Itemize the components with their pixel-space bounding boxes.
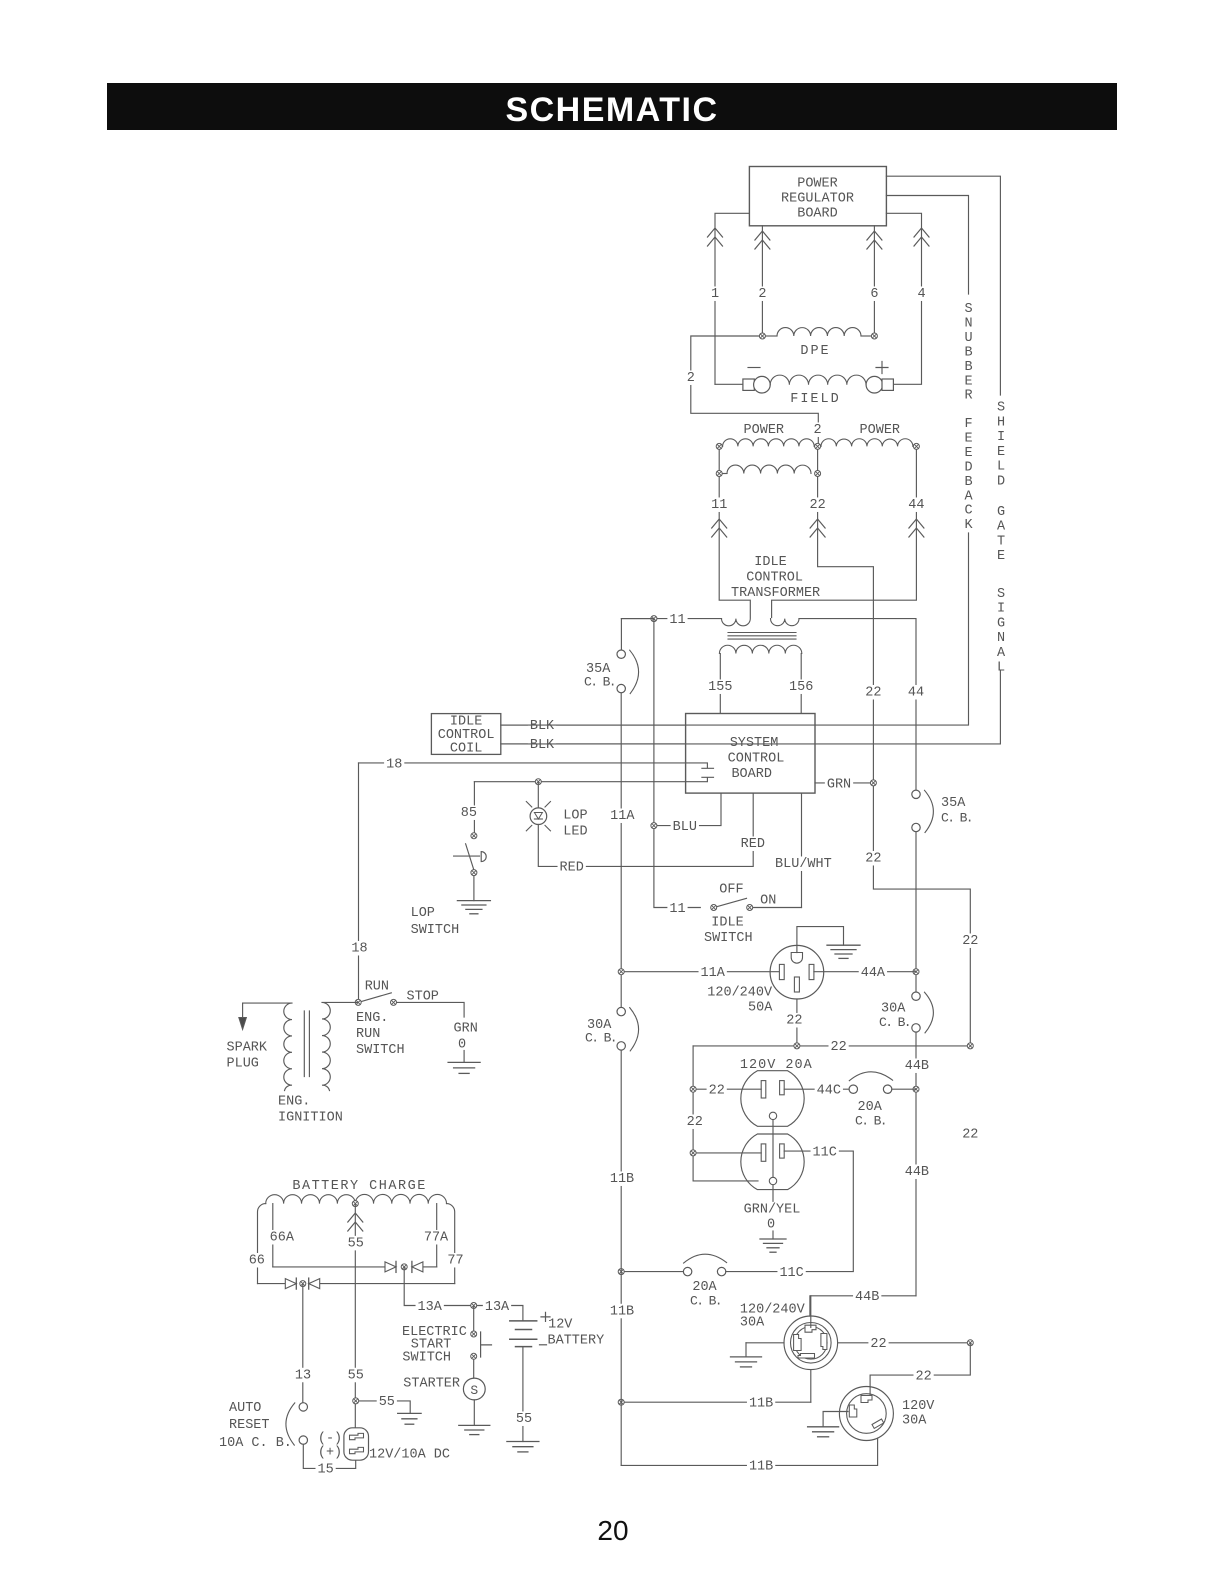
svg-text:E: E [964, 374, 972, 389]
svg-text:A: A [997, 520, 1006, 535]
led LOP [526, 802, 550, 831]
wire 77A row [423, 1266, 436, 1268]
wire 11 drop [719, 477, 750, 618]
breaker label 20A CB upper [855, 1100, 886, 1129]
svg-text:22: 22 [865, 852, 881, 867]
svg-text:22: 22 [709, 1084, 725, 1099]
svg-text:F: F [964, 417, 972, 432]
wire pin1 stub from U1 [715, 213, 749, 384]
svg-text:12V: 12V [548, 1318, 573, 1333]
svg-text:44B: 44B [905, 1059, 929, 1074]
wire bc tap 66A [272, 1204, 274, 1267]
wire label 55 battery [514, 1411, 534, 1427]
receptacle 30A slot top [805, 1325, 816, 1332]
wire 50A ground [797, 927, 844, 953]
svg-text:A: A [997, 646, 1006, 661]
junction 22 lower outlet [690, 1150, 696, 1156]
wire label 11B lower [608, 1304, 636, 1320]
auto reset label [219, 1401, 292, 1451]
svg-text:IGNITION: IGNITION [278, 1111, 343, 1126]
junction 44A [913, 969, 919, 975]
diode D4 [309, 1278, 320, 1289]
svg-text:11: 11 [669, 902, 685, 917]
ignition label [278, 1095, 343, 1126]
svg-text:SWITCH: SWITCH [402, 1351, 451, 1366]
battery minus [540, 1344, 547, 1346]
wire label 22 col right [960, 1127, 980, 1143]
wire DPE right lead [861, 335, 871, 337]
transformer T1 core [728, 633, 796, 640]
svg-text:C: C [964, 504, 972, 519]
svg-text:30A: 30A [740, 1316, 765, 1331]
circuit breaker 35A right [912, 790, 934, 832]
svg-text:22: 22 [962, 934, 978, 949]
svg-text:11: 11 [669, 613, 685, 628]
svg-text:L: L [997, 661, 1005, 676]
brush terminal field right [866, 376, 893, 393]
svg-text:SWITCH: SWITCH [704, 931, 753, 946]
wire label 85 [459, 805, 479, 821]
svg-text:E: E [997, 445, 1005, 460]
svg-text:ON: ON [760, 894, 776, 909]
wire label BLK upper [528, 718, 556, 734]
system control board U2 box [686, 714, 815, 794]
wire 77 row [320, 1283, 455, 1285]
svg-text:H: H [997, 415, 1005, 430]
wire label RED left [558, 860, 586, 876]
electric start switch label [402, 1325, 467, 1366]
svg-text:CONTROL: CONTROL [728, 752, 785, 767]
connector arrow 44 [909, 519, 924, 537]
junction DPE right [871, 333, 877, 339]
receptacle 50A outline [770, 945, 824, 999]
lop switch label [411, 906, 460, 938]
breaker label 20A CB lower [690, 1280, 721, 1309]
receptacle 50A slot bottom [794, 977, 799, 992]
svg-text:SCHEMATIC: SCHEMATIC [505, 91, 718, 129]
receptacle 30A twistlock ring [791, 1323, 832, 1364]
connector arrow pin 6 [867, 231, 882, 249]
junction 11B 11C [618, 1269, 624, 1275]
stub power mid [817, 446, 819, 473]
wire 22 left branch [693, 1046, 758, 1181]
receptacle duplex lower outline [741, 1134, 804, 1190]
wire 66A row [273, 1266, 385, 1268]
receptacle duplex lower ground hole [769, 1177, 776, 1184]
wire 22 to upper outlet [693, 1088, 761, 1090]
wire field left [715, 383, 743, 385]
svg-text:11C: 11C [813, 1145, 837, 1160]
svg-text:TRANSFORMER: TRANSFORMER [731, 586, 820, 601]
idle switch contact left [711, 905, 717, 911]
wire 22 bus [693, 1045, 970, 1047]
receptacle duplex upper ground hole [769, 1112, 776, 1119]
diode D1 [385, 1261, 396, 1272]
svg-text:RUN: RUN [365, 980, 389, 995]
inductor battery charge right [355, 1194, 446, 1203]
svg-text:18: 18 [386, 757, 402, 772]
led label LOP LED [563, 809, 587, 840]
circuit breaker 35A left [617, 650, 639, 694]
receptacle duplex upper outline [741, 1071, 804, 1127]
svg-text:N: N [964, 316, 972, 331]
wire label 44B h [853, 1290, 881, 1306]
svg-text:66A: 66A [270, 1231, 295, 1246]
pin label 1 [709, 286, 721, 302]
pin label 156 [787, 679, 815, 695]
junction GRN 22 [870, 780, 876, 786]
pin label 4 [915, 286, 927, 302]
ground battery [507, 1442, 539, 1452]
lop switch contact upper [471, 833, 477, 839]
idle switch contact right [747, 905, 753, 911]
svg-text:PLUG: PLUG [227, 1057, 259, 1072]
transformer T2 primary [243, 1003, 292, 1091]
svg-text:S: S [470, 1383, 478, 1398]
receptacle duplex lower slot L [761, 1144, 766, 1161]
circuit breaker 20A lower [683, 1254, 726, 1276]
wire label 55 lower [346, 1368, 366, 1384]
wire twistlock left ground stub [745, 1343, 747, 1357]
svg-text:55: 55 [516, 1412, 532, 1427]
svg-text:RED: RED [560, 861, 584, 876]
wire grn ground stub [463, 1051, 465, 1063]
wire 22 to lower outlet [693, 1152, 761, 1154]
svg-text:BATTERY: BATTERY [548, 1334, 605, 1349]
junction power 2 [815, 443, 821, 449]
wire label 18 [384, 757, 404, 773]
connector arrow 11 [712, 519, 727, 537]
power regulator board U1 box [749, 167, 886, 226]
breaker label 30A CB right [879, 1002, 910, 1031]
spark plug label [227, 1041, 268, 1072]
wire start switch top [473, 1306, 475, 1335]
receptacle 12V DC outline [344, 1428, 369, 1460]
junction power 11 [716, 443, 722, 449]
svg-text:6: 6 [870, 287, 878, 302]
svg-text:POWER: POWER [744, 423, 785, 438]
svg-text:55: 55 [379, 1395, 395, 1410]
eng run switch label [356, 1011, 405, 1058]
wire label 11A [608, 808, 636, 824]
junction 22 twistlock [967, 1340, 973, 1346]
junction power aux left [716, 471, 722, 477]
svg-text:SWITCH: SWITCH [356, 1043, 405, 1058]
diode D2 [412, 1261, 423, 1272]
svg-text:11C: 11C [779, 1266, 803, 1281]
wire label 44C [815, 1083, 843, 1099]
receptacle 120V 30A slot left [849, 1405, 857, 1417]
junction 22 upper outlet [690, 1086, 696, 1092]
wire label RED right [739, 836, 767, 852]
wire RED from led [538, 793, 753, 866]
svg-text:SWITCH: SWITCH [411, 923, 460, 938]
svg-text:2: 2 [758, 287, 766, 302]
wire label 66A [268, 1230, 296, 1246]
wire 11B twistlock [621, 1401, 811, 1403]
svg-text:OFF: OFF [719, 883, 743, 898]
wire label 22 [808, 497, 828, 513]
wire pin2 stub [761, 226, 763, 336]
wire 22 to 120v30a [870, 1343, 970, 1398]
svg-text:IDLE: IDLE [711, 916, 743, 931]
svg-text:BLK: BLK [530, 719, 555, 734]
wire GRN [815, 782, 873, 784]
wire 120v30a left lead [823, 1412, 848, 1427]
junction 44B 44C [913, 1086, 919, 1092]
wire shield gate signal [886, 176, 1000, 395]
svg-text:22: 22 [962, 1128, 978, 1143]
svg-text:S: S [964, 302, 972, 317]
svg-text:N: N [997, 631, 1005, 646]
wire label 11 [709, 497, 729, 513]
wire bc outer left [258, 1204, 266, 1284]
svg-text:50A: 50A [748, 1001, 773, 1016]
svg-text:BLU/WHT: BLU/WHT [775, 857, 832, 872]
wire label BLU [671, 819, 699, 835]
svg-text:44: 44 [908, 686, 924, 701]
svg-text:44B: 44B [905, 1165, 929, 1180]
svg-text:BOARD: BOARD [731, 767, 772, 782]
svg-text:LOP: LOP [563, 809, 587, 824]
wire 120v30a bottom lead [621, 1438, 877, 1465]
receptacle 50A slot left [779, 964, 784, 979]
svg-text:22: 22 [870, 1337, 886, 1352]
title banner [107, 83, 1117, 130]
wire 44A horizontal [814, 971, 916, 973]
svg-text:22: 22 [687, 1115, 703, 1130]
receptacle 30A twistlock label [740, 1303, 806, 1331]
wire 85 line [474, 777, 713, 781]
breaker label 35A CB right [941, 796, 972, 826]
wire 11B to 20A cb [621, 1271, 683, 1273]
wire label 77 [445, 1253, 465, 1269]
svg-text:SPARK: SPARK [227, 1041, 268, 1056]
svg-text:CONTROL: CONTROL [746, 571, 803, 586]
wire 11A horizontal [621, 971, 779, 973]
wire battery to ground [522, 1347, 524, 1442]
receptacle 50A slot right [809, 964, 814, 979]
wire 44A seg [915, 832, 917, 992]
svg-text:10A C. B.: 10A C. B. [219, 1436, 292, 1451]
receptacle 120V 30A outline [839, 1387, 893, 1441]
junction 11B twistlock [618, 1399, 624, 1405]
svg-text:13A: 13A [485, 1300, 510, 1315]
net label SHIELD GATE SIGNAL [997, 401, 1006, 676]
svg-text:11A: 11A [610, 809, 635, 824]
wire 11 into transformer [621, 618, 721, 620]
ground engine run [448, 1062, 480, 1073]
wire label 13 [293, 1368, 313, 1384]
receptacle 30A twistlock inner [795, 1327, 828, 1360]
svg-text:BLK: BLK [530, 738, 555, 753]
wire label 0 engine [456, 1037, 468, 1053]
svg-text:G: G [997, 505, 1005, 520]
svg-text:156: 156 [789, 680, 813, 695]
svg-text:BLU: BLU [673, 820, 697, 835]
svg-text:0: 0 [767, 1217, 775, 1232]
wire 11B vertical [620, 1050, 622, 1465]
idle control coil box [431, 714, 500, 755]
svg-text:D: D [997, 474, 1005, 489]
wire label 22 drop [784, 1013, 804, 1029]
svg-text:I: I [997, 430, 1005, 445]
wire 44B [915, 1032, 917, 1296]
svg-text:POWER: POWER [860, 423, 901, 438]
junction 22 bus mid [794, 1043, 800, 1049]
wire bc tap 77A [436, 1204, 438, 1267]
svg-text:S: S [997, 401, 1005, 416]
receptacle 120V 30A slot br [872, 1419, 884, 1428]
wire label 22 to 120v30a [914, 1369, 934, 1385]
transformer T1 secondary [719, 645, 801, 653]
wire BLK 2 inside [686, 743, 815, 745]
wire BLU/WHT [801, 793, 803, 907]
transformer T1 primary right [771, 619, 800, 626]
wire label 44B mid [903, 1164, 931, 1180]
junction 55 [353, 1398, 359, 1404]
wire label 55 upper [346, 1236, 366, 1252]
wire 22 drop [818, 477, 971, 1046]
svg-text:4: 4 [917, 287, 925, 302]
svg-text:T: T [997, 534, 1005, 549]
svg-text:35A: 35A [941, 796, 966, 811]
svg-text:120/240V: 120/240V [707, 986, 773, 1001]
svg-text:D: D [964, 460, 972, 475]
receptacle 12V DC slot minus [350, 1433, 364, 1439]
wire grn yel stub [772, 1231, 774, 1239]
svg-text:GRN: GRN [454, 1022, 478, 1037]
wire label 2 [685, 370, 697, 386]
wire to 35A breaker [621, 619, 654, 650]
wire label 44B upper [903, 1058, 931, 1074]
wire 85 [473, 782, 475, 832]
start switch contact bottom [471, 1353, 477, 1359]
wire 11C bus [726, 1271, 854, 1273]
inductor battery charge left [266, 1195, 356, 1204]
receptacle 30A twistlock outline [784, 1316, 838, 1370]
svg-text:44A: 44A [861, 966, 886, 981]
ground GRN/YEL [760, 1239, 786, 1252]
svg-text:C. B.: C. B. [584, 675, 615, 690]
receptacle 50A ground slot [791, 953, 802, 964]
receptacle duplex upper slot R [780, 1081, 785, 1095]
U1 label [781, 177, 854, 222]
connector arrow pin 2 [755, 231, 770, 249]
ground 50A receptacle [827, 945, 860, 958]
svg-text:11B: 11B [610, 1304, 634, 1319]
svg-text:R: R [964, 389, 972, 404]
svg-text:11B: 11B [749, 1460, 773, 1475]
junction 13A [471, 1303, 477, 1309]
svg-text:44C: 44C [817, 1084, 841, 1099]
wire led top [537, 782, 539, 808]
svg-text:C. B.: C. B. [879, 1015, 910, 1030]
svg-text:IDLE: IDLE [754, 555, 786, 570]
wire label 11C bus [777, 1265, 805, 1281]
transformer T2 secondary [322, 1002, 358, 1090]
wire BLU [654, 793, 721, 826]
wire to starter [473, 1360, 475, 1378]
svg-text:RED: RED [741, 837, 765, 852]
wire label 13A left [416, 1299, 444, 1315]
polarity minus [748, 367, 760, 369]
transformer T2 core [304, 1011, 309, 1077]
svg-text:E: E [997, 549, 1005, 564]
wire label GRN/YEL [742, 1202, 803, 1218]
svg-text:POWER: POWER [797, 177, 838, 192]
svg-text:B: B [964, 345, 972, 360]
junction BLU tap [651, 823, 657, 829]
stub power left [718, 446, 720, 473]
svg-text:44: 44 [908, 498, 924, 513]
wire starter ground [473, 1400, 475, 1426]
starter motor S [463, 1378, 485, 1400]
svg-text:C. B.: C. B. [941, 811, 972, 826]
wire label 11 idle [667, 901, 687, 917]
receptacle duplex lower slot R [780, 1144, 785, 1158]
wire BLK 1 inside [686, 724, 815, 726]
connector arrow pin 1 [708, 228, 723, 246]
wire 2 [691, 336, 819, 443]
inductor POWER right [821, 439, 913, 447]
svg-text:G: G [997, 616, 1005, 631]
svg-text:55: 55 [348, 1236, 364, 1251]
wire label 22 bus [829, 1040, 849, 1056]
svg-text:RESET: RESET [229, 1418, 270, 1433]
wire label 44A [859, 965, 887, 981]
wire bc outer right [447, 1204, 455, 1284]
wire stop to grn [397, 1002, 464, 1017]
svg-text:77A: 77A [424, 1231, 449, 1246]
wire 18 [359, 763, 714, 768]
svg-text:FIELD: FIELD [790, 392, 841, 407]
junction 22 bus right [967, 1043, 973, 1049]
svg-text:(-): (-) [318, 1431, 342, 1446]
receptacle duplex upper slot L [761, 1081, 766, 1098]
battery 12V plates [510, 1321, 537, 1347]
wire 44C [784, 1088, 849, 1090]
svg-text:L: L [997, 460, 1005, 475]
junction diodes lower [300, 1281, 306, 1287]
inductor power aux lead l [723, 473, 727, 475]
wire 44B horizontal [810, 1296, 916, 1316]
wire label 22 upper outlet [707, 1083, 727, 1099]
wire label GRN [825, 777, 853, 793]
wire 155 lead [719, 654, 721, 714]
U2 label [728, 736, 785, 782]
svg-text:(+): (+) [318, 1446, 342, 1461]
svg-text:2: 2 [687, 371, 695, 386]
idle switch blade [714, 898, 747, 907]
spark plug electrode [239, 1018, 247, 1030]
svg-text:AUTO: AUTO [229, 1401, 261, 1416]
wire twistlock top lead [810, 1296, 812, 1328]
svg-text:22: 22 [809, 498, 825, 513]
wire label 44 [906, 497, 926, 513]
receptacle 50A label [707, 986, 773, 1016]
pin label 2 [756, 286, 768, 302]
svg-text:ENG.: ENG. [356, 1011, 388, 1026]
receptacle 12V DC slot plus [350, 1447, 364, 1453]
ground 30A twistlock [731, 1357, 762, 1367]
svg-text:85: 85 [461, 806, 477, 821]
wire label 13A right [483, 1299, 511, 1315]
wire ground link duplex [772, 1120, 774, 1203]
svg-text:120V: 120V [902, 1399, 935, 1414]
circuit breaker 30A left [617, 1007, 639, 1051]
svg-text:11B: 11B [749, 1397, 773, 1412]
